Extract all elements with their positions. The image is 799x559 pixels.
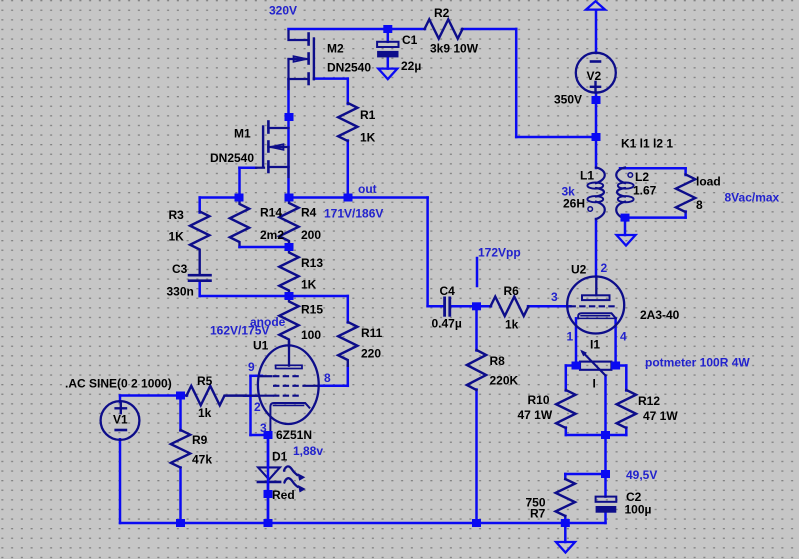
svg-text:D1: D1 — [272, 450, 288, 464]
svg-text:100µ: 100µ — [625, 503, 652, 517]
svg-text:out: out — [358, 182, 377, 196]
svg-text:.AC SINE(0 2 1000): .AC SINE(0 2 1000) — [65, 376, 172, 390]
svg-text:22µ: 22µ — [401, 59, 421, 73]
svg-text:load: load — [696, 174, 721, 188]
svg-text:1,88v: 1,88v — [293, 444, 323, 458]
svg-text:V2: V2 — [587, 69, 602, 83]
svg-text:1.67: 1.67 — [633, 183, 657, 197]
svg-text:320V: 320V — [269, 4, 297, 18]
svg-text:220: 220 — [361, 346, 381, 360]
svg-text:1K: 1K — [301, 278, 317, 292]
svg-text:U2: U2 — [571, 263, 587, 277]
svg-text:1k: 1k — [505, 318, 519, 332]
svg-text:8: 8 — [324, 371, 331, 385]
svg-text:3k9 10W: 3k9 10W — [430, 42, 479, 56]
svg-text:1k: 1k — [198, 406, 212, 420]
svg-text:R5: R5 — [197, 374, 213, 388]
svg-text:6Z51N: 6Z51N — [276, 428, 312, 442]
svg-text:3k: 3k — [562, 185, 576, 199]
svg-text:100: 100 — [301, 328, 321, 342]
svg-text:200: 200 — [301, 228, 321, 242]
svg-text:R7: R7 — [530, 507, 546, 521]
svg-text:162V/175V: 162V/175V — [210, 324, 269, 338]
svg-text:2m2: 2m2 — [260, 228, 284, 242]
svg-text:1K: 1K — [360, 130, 376, 144]
svg-text:R15: R15 — [301, 302, 323, 316]
svg-text:220K: 220K — [490, 374, 519, 388]
svg-text:C4: C4 — [440, 284, 456, 298]
svg-text:8Vac/max: 8Vac/max — [725, 191, 780, 205]
svg-text:1: 1 — [567, 330, 574, 344]
svg-text:2A3-40: 2A3-40 — [640, 308, 680, 322]
svg-text:R6: R6 — [504, 284, 520, 298]
svg-text:2: 2 — [601, 261, 608, 275]
svg-text:0.47µ: 0.47µ — [432, 317, 462, 331]
svg-text:L2: L2 — [635, 170, 649, 184]
svg-text:47 1W: 47 1W — [518, 408, 553, 422]
svg-text:I: I — [593, 377, 596, 391]
svg-text:R2: R2 — [434, 6, 450, 20]
svg-text:R13: R13 — [301, 256, 323, 270]
svg-text:DN2540: DN2540 — [327, 61, 371, 75]
svg-text:47 1W: 47 1W — [643, 409, 678, 423]
svg-text:9: 9 — [248, 360, 255, 374]
svg-text:C1: C1 — [402, 33, 418, 47]
svg-text:U1: U1 — [253, 339, 269, 353]
svg-text:3: 3 — [551, 290, 558, 304]
svg-text:172Vpp: 172Vpp — [478, 246, 521, 260]
svg-text:4: 4 — [620, 330, 627, 344]
svg-text:R10: R10 — [528, 393, 550, 407]
svg-text:R1: R1 — [360, 108, 376, 122]
svg-text:M1: M1 — [234, 126, 251, 140]
svg-text:C3: C3 — [172, 262, 188, 276]
svg-text:330n: 330n — [167, 285, 194, 299]
svg-text:R9: R9 — [192, 433, 208, 447]
svg-text:DN2540: DN2540 — [210, 151, 254, 165]
svg-text:R8: R8 — [490, 354, 506, 368]
svg-text:47k: 47k — [192, 453, 212, 467]
svg-text:I1: I1 — [590, 338, 600, 352]
svg-text:26H: 26H — [563, 197, 585, 211]
svg-text:R3: R3 — [169, 208, 185, 222]
svg-text:350V: 350V — [554, 93, 582, 107]
svg-text:171V/186V: 171V/186V — [324, 207, 383, 221]
svg-text:potmeter 100R 4W: potmeter 100R 4W — [645, 355, 750, 369]
svg-text:V1: V1 — [113, 413, 128, 427]
svg-text:2: 2 — [254, 400, 261, 414]
svg-text:R12: R12 — [638, 394, 660, 408]
svg-text:49,5V: 49,5V — [626, 468, 657, 482]
svg-text:3: 3 — [260, 421, 267, 435]
svg-text:L1: L1 — [580, 168, 594, 182]
svg-text:M2: M2 — [327, 42, 344, 56]
svg-text:R11: R11 — [361, 326, 383, 340]
svg-text:K1 l1 l2 1: K1 l1 l2 1 — [621, 137, 673, 151]
svg-text:Red: Red — [272, 488, 295, 502]
svg-text:8: 8 — [696, 198, 703, 212]
svg-text:1K: 1K — [169, 230, 185, 244]
svg-text:R4: R4 — [301, 205, 317, 219]
svg-text:R14: R14 — [260, 205, 282, 219]
